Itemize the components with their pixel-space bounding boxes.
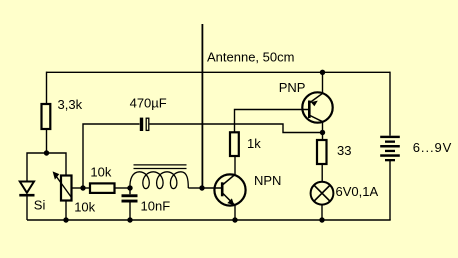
svg-text:1k: 1k: [247, 136, 261, 151]
capacitor C 10nF: [122, 188, 138, 220]
resistor R 10k horizontal: [90, 183, 115, 193]
resistor R 33: [317, 140, 327, 164]
node C junction dot: [127, 185, 132, 190]
node B junction dot: [80, 185, 85, 190]
svg-text:6...9V: 6...9V: [413, 140, 452, 155]
label PNP: [279, 80, 306, 95]
label 3,3k: [58, 97, 83, 112]
label Si: [34, 197, 46, 212]
wire left column above R1: [46, 72, 48, 104]
wire Q2 emitter to top rail: [322, 72, 324, 93]
wire Q2 collector to node E: [322, 122, 324, 133]
svg-text:33: 33: [337, 143, 351, 158]
label 10k (series resistor): [90, 164, 111, 179]
svg-text:6V0,1A: 6V0,1A: [336, 184, 379, 199]
node A junction dot: [44, 150, 49, 155]
svg-text:10k: 10k: [90, 164, 111, 179]
svg-text:PNP: PNP: [279, 80, 306, 95]
transistor Q2 PNP: [302, 92, 332, 122]
label 1k: [247, 136, 261, 151]
wire Q1 collector to R 1k: [234, 156, 236, 175]
label 6V0,1A: [336, 184, 379, 199]
wire node E to R 33: [322, 133, 324, 141]
wire bottom ground rail: [27, 219, 391, 221]
potentiometer wiper arrow: [53, 171, 72, 197]
capacitor C 470uF (polarized): [140, 118, 149, 131]
wire node A to potentiometer top: [47, 153, 67, 176]
wire C 470uF right plate to PNP collector node: [150, 124, 323, 133]
node D junction dot: [199, 185, 204, 190]
wire right rail lower (battery - to bottom rail): [389, 161, 391, 220]
wire potentiometer bottom to bottom rail: [65, 201, 67, 221]
label 33: [337, 143, 351, 158]
wire L1 to node D: [188, 187, 202, 189]
junction dot lamp on rail: [319, 217, 324, 222]
node E junction dot: [320, 130, 325, 135]
junction dot Q2 emitter on top rail: [320, 70, 325, 75]
inductor L1 coil: [130, 172, 188, 189]
label 470uF: [130, 96, 167, 111]
wire right rail upper (to battery +): [389, 72, 391, 136]
wire node B up to capacitor C 470uF: [83, 124, 140, 188]
wire wiper to node B: [72, 187, 84, 189]
diode D Si: [19, 182, 34, 196]
wire diode cathode to bottom rail: [26, 197, 28, 221]
wire R 3,3k bottom to node A: [46, 129, 48, 153]
svg-text:NPN: NPN: [254, 173, 281, 188]
transistor Q1 NPN: [214, 174, 245, 205]
svg-text:3,3k: 3,3k: [58, 97, 83, 112]
svg-text:Antenne, 50cm: Antenne, 50cm: [207, 50, 294, 65]
wire node D to Q1 base: [202, 187, 221, 189]
wire Q1 emitter to bottom rail: [234, 206, 236, 221]
resistor R 1k: [230, 132, 239, 156]
wire lamp bottom to bottom rail: [321, 205, 323, 220]
svg-text:Si: Si: [34, 197, 46, 212]
inductor L1 core lines: [134, 165, 187, 169]
svg-text:10nF: 10nF: [141, 199, 171, 214]
junction dot Q1 emitter on rail: [232, 217, 237, 222]
wire R 33 to lamp: [321, 164, 323, 182]
label 6...9V: [413, 140, 452, 155]
resistor R 3,3k: [42, 104, 51, 129]
svg-text:10k: 10k: [74, 200, 95, 215]
label Antenne, 50cm: [207, 50, 294, 65]
potentiometer P 10k body: [61, 176, 72, 201]
wire R 10k to node C: [115, 187, 131, 189]
wire node B to R 10k: [83, 187, 90, 189]
svg-text:470µF: 470µF: [130, 96, 167, 111]
battery B1 cells: [380, 136, 400, 162]
junction dot C 10nF on bottom rail: [127, 217, 132, 222]
wire node A to diode branch: [27, 153, 47, 182]
lamp LA1 6V 0,1A: [311, 182, 334, 205]
wire R 1k top to Q2 base: [235, 110, 309, 133]
label NPN: [254, 173, 281, 188]
label 10nF: [141, 199, 171, 214]
antenna wire: [201, 24, 203, 188]
label 10k (potentiometer): [74, 200, 95, 215]
wire top supply rail: [47, 71, 391, 73]
junction dot pot bottom on rail: [63, 217, 68, 222]
